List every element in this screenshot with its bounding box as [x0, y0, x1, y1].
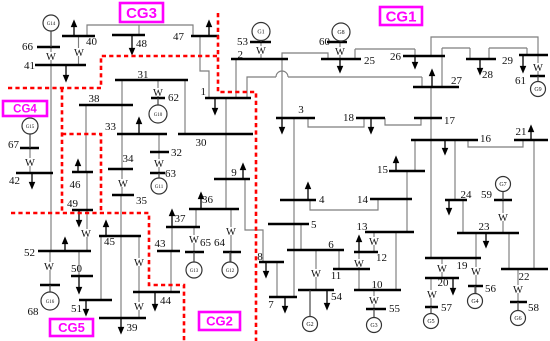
svg-text:18: 18 — [343, 112, 355, 124]
svg-text:G10: G10 — [154, 113, 163, 118]
svg-text:13: 13 — [357, 221, 369, 233]
svg-text:G4: G4 — [471, 299, 478, 305]
svg-text:63: 63 — [165, 168, 177, 180]
svg-text:66: 66 — [22, 41, 34, 53]
svg-text:14: 14 — [357, 194, 369, 206]
svg-text:65: 65 — [200, 237, 212, 249]
svg-text:61: 61 — [515, 75, 526, 87]
svg-text:29: 29 — [502, 55, 514, 67]
svg-text:57: 57 — [441, 302, 453, 314]
svg-text:64: 64 — [214, 237, 226, 249]
svg-text:G1: G1 — [257, 30, 264, 36]
svg-text:55: 55 — [389, 303, 401, 315]
svg-text:3: 3 — [298, 104, 304, 116]
svg-text:W: W — [335, 47, 345, 58]
svg-text:25: 25 — [364, 55, 376, 67]
svg-text:CG2: CG2 — [206, 314, 233, 329]
svg-text:W: W — [44, 262, 54, 273]
svg-text:W: W — [46, 52, 56, 63]
svg-text:52: 52 — [24, 247, 35, 259]
svg-text:54: 54 — [331, 291, 343, 303]
svg-text:36: 36 — [202, 194, 214, 206]
svg-text:47: 47 — [173, 31, 185, 43]
svg-text:38: 38 — [89, 93, 101, 105]
svg-text:CG4: CG4 — [13, 104, 37, 116]
svg-text:G11: G11 — [155, 185, 164, 190]
svg-text:G7: G7 — [499, 182, 506, 188]
svg-text:37: 37 — [175, 213, 187, 225]
svg-text:W: W — [369, 296, 379, 307]
svg-text:31: 31 — [138, 69, 149, 81]
svg-text:22: 22 — [519, 271, 530, 283]
svg-text:W: W — [369, 237, 379, 248]
svg-text:30: 30 — [196, 137, 208, 149]
svg-text:33: 33 — [105, 121, 117, 133]
svg-text:41: 41 — [24, 60, 35, 72]
svg-text:67: 67 — [8, 139, 20, 151]
svg-text:17: 17 — [444, 115, 456, 127]
svg-text:W: W — [134, 302, 144, 313]
svg-text:20: 20 — [438, 277, 450, 289]
svg-text:23: 23 — [479, 221, 491, 233]
svg-text:68: 68 — [28, 306, 40, 318]
svg-text:46: 46 — [70, 179, 82, 191]
svg-text:CG1: CG1 — [386, 8, 417, 25]
svg-text:4: 4 — [319, 194, 325, 206]
svg-text:53: 53 — [237, 36, 249, 48]
svg-text:W: W — [81, 229, 91, 240]
svg-text:44: 44 — [160, 295, 172, 307]
svg-text:W: W — [513, 285, 523, 296]
svg-text:W: W — [498, 213, 508, 224]
svg-text:45: 45 — [104, 236, 116, 248]
svg-text:W: W — [118, 179, 128, 190]
svg-text:19: 19 — [457, 260, 469, 272]
svg-text:6: 6 — [328, 239, 334, 251]
svg-text:1: 1 — [201, 86, 207, 98]
svg-text:60: 60 — [319, 36, 331, 48]
svg-text:42: 42 — [9, 175, 20, 187]
svg-text:G2: G2 — [306, 322, 313, 328]
svg-text:56: 56 — [485, 283, 497, 295]
svg-text:40: 40 — [86, 36, 98, 48]
svg-text:26: 26 — [390, 51, 402, 63]
svg-text:32: 32 — [171, 147, 182, 159]
svg-text:48: 48 — [136, 38, 148, 50]
svg-text:G9: G9 — [534, 87, 541, 93]
svg-text:W: W — [427, 290, 437, 301]
svg-text:15: 15 — [377, 164, 389, 176]
svg-text:9: 9 — [231, 167, 237, 179]
svg-text:G6: G6 — [514, 316, 521, 322]
svg-text:G5: G5 — [427, 319, 434, 325]
svg-text:12: 12 — [376, 252, 387, 264]
svg-text:24: 24 — [461, 189, 473, 201]
svg-text:39: 39 — [127, 322, 139, 334]
svg-text:2: 2 — [238, 49, 244, 61]
svg-text:49: 49 — [67, 198, 79, 210]
svg-text:G3: G3 — [370, 323, 377, 329]
svg-text:G14: G14 — [47, 22, 56, 27]
svg-text:21: 21 — [516, 126, 527, 138]
svg-text:G12: G12 — [226, 269, 235, 274]
svg-text:CG5: CG5 — [58, 320, 85, 335]
svg-text:W: W — [311, 269, 321, 280]
svg-text:W: W — [437, 264, 447, 275]
svg-text:W: W — [226, 227, 236, 238]
svg-text:W: W — [533, 63, 543, 74]
svg-text:62: 62 — [168, 92, 179, 104]
svg-text:10: 10 — [372, 279, 384, 291]
svg-text:G15: G15 — [26, 125, 35, 130]
svg-text:G16: G16 — [46, 300, 55, 305]
svg-text:28: 28 — [482, 69, 494, 81]
svg-text:8: 8 — [257, 251, 263, 263]
svg-text:51: 51 — [71, 303, 82, 315]
svg-text:35: 35 — [136, 195, 148, 207]
svg-text:G8: G8 — [337, 30, 344, 36]
svg-text:58: 58 — [528, 302, 540, 314]
svg-text:27: 27 — [451, 75, 463, 87]
svg-text:7: 7 — [268, 299, 274, 311]
svg-text:59: 59 — [481, 189, 493, 201]
svg-text:W: W — [189, 235, 199, 246]
svg-text:11: 11 — [331, 270, 342, 282]
svg-text:5: 5 — [311, 219, 317, 231]
svg-text:G13: G13 — [190, 269, 199, 274]
svg-text:16: 16 — [480, 133, 492, 145]
svg-text:50: 50 — [71, 263, 83, 275]
svg-text:W: W — [25, 158, 35, 169]
svg-text:W: W — [471, 267, 481, 278]
svg-text:W: W — [256, 46, 266, 57]
svg-text:W: W — [74, 48, 84, 59]
svg-text:W: W — [154, 159, 164, 170]
svg-text:43: 43 — [155, 238, 167, 250]
svg-text:34: 34 — [123, 153, 135, 165]
svg-text:W: W — [134, 258, 144, 269]
svg-text:CG3: CG3 — [126, 5, 157, 22]
